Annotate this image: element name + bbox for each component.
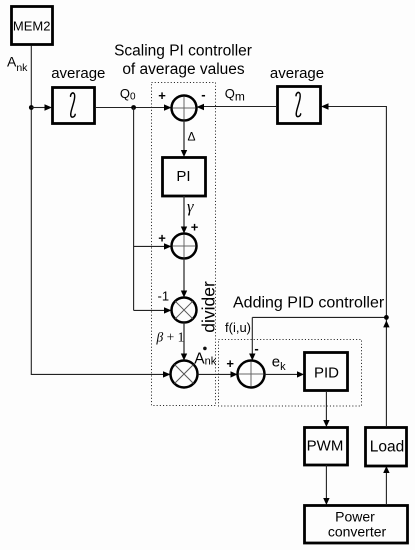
wire feedback horizontal to f branch	[252, 316, 386, 318]
multiplier X1	[172, 298, 197, 323]
svg-text:β + 1: β + 1	[156, 330, 185, 345]
svg-text:average: average	[51, 65, 105, 82]
summing junction S3	[238, 361, 265, 388]
wire Q0 branch into multiplier X1	[134, 307, 172, 313]
svg-text:-: -	[254, 341, 258, 356]
dotted box Scaling PI controller	[152, 83, 216, 406]
wire Q0 branch into summing junction S2	[134, 243, 172, 249]
wire PI to summing junction S2	[181, 196, 187, 234]
label ek	[272, 354, 286, 373]
svg-text:Scaling PI controller: Scaling PI controller	[114, 42, 252, 59]
label A_nk	[7, 54, 28, 75]
dotted box Adding PID controller	[219, 340, 362, 407]
svg-text:-: -	[201, 87, 205, 102]
wire PWM to Power converter	[323, 465, 329, 505]
svg-text:PI: PI	[176, 168, 190, 185]
multiplier X2	[171, 361, 198, 388]
svg-text:Δ: Δ	[188, 130, 196, 144]
label Qm	[225, 86, 245, 104]
svg-text:-1: -1	[158, 289, 170, 304]
wire X2 to summing junction S3	[198, 371, 238, 377]
label minus at S3	[254, 341, 258, 356]
block average right with integral sign	[278, 87, 321, 124]
wire left line into multiplier X2	[31, 371, 171, 377]
wire S1 to PI block	[181, 121, 187, 158]
wire PID to PWM	[323, 391, 329, 427]
svg-text:MEM2: MEM2	[13, 18, 51, 33]
arrow up on right line below junction	[383, 320, 389, 327]
title Adding PID controller	[233, 295, 385, 312]
label gamma	[187, 197, 194, 216]
wire X1 to multiplier X2	[181, 323, 187, 361]
summing junction S1	[172, 96, 197, 121]
summing junction S2	[172, 234, 197, 259]
block PI	[163, 158, 206, 197]
block PID	[305, 353, 348, 391]
wire f branch down into S3	[249, 317, 255, 360]
block Load	[366, 428, 407, 467]
label average (right)	[270, 65, 324, 82]
title Scaling PI controller of average values	[114, 42, 252, 78]
node Q0 dot	[131, 105, 136, 110]
wire S2 to multiplier X1	[181, 259, 187, 298]
label plus top at S2	[191, 220, 199, 235]
svg-text:+: +	[158, 231, 166, 246]
label Q0	[120, 86, 136, 103]
svg-text:+: +	[158, 88, 166, 103]
label average (left)	[51, 65, 105, 82]
junction dot on right line	[384, 315, 389, 320]
wire Q0 vertical drop	[133, 108, 135, 311]
label plus left at S2	[158, 231, 166, 246]
block MEM2	[12, 7, 53, 45]
block average left with integral sign	[53, 88, 95, 124]
label beta + 1	[156, 330, 185, 345]
svg-text:Adding PID controller: Adding PID controller	[233, 295, 385, 312]
wire junction to average (left)	[31, 104, 52, 110]
block PWM	[305, 428, 348, 466]
label divider (rotated)	[199, 281, 219, 333]
label plus at S3	[226, 356, 234, 371]
svg-text:f(i,u): f(i,u)	[225, 320, 251, 335]
svg-text:divider: divider	[199, 281, 219, 333]
label plus at S1	[158, 88, 166, 103]
svg-text:+: +	[226, 356, 234, 371]
svg-text:average: average	[270, 65, 324, 82]
svg-text:of average values: of average values	[122, 61, 245, 78]
wire average right to S1	[197, 104, 278, 110]
label Delta	[188, 130, 196, 144]
label A*nk	[194, 347, 216, 368]
wire from MEM2 down left side	[30, 46, 32, 375]
svg-text:Power: Power	[335, 508, 375, 524]
block Power converter	[305, 506, 408, 544]
wire Load up right side to average right	[321, 103, 386, 427]
svg-text:+: +	[191, 220, 199, 235]
svg-text:Load: Load	[370, 438, 404, 455]
svg-text:γ: γ	[187, 197, 194, 216]
wire S3 to PID	[265, 371, 305, 377]
label f(i,u)	[225, 320, 251, 335]
svg-text:Qm: Qm	[225, 86, 245, 104]
label -1	[158, 289, 170, 304]
junction node on left line	[29, 105, 34, 110]
label minus at S1	[201, 87, 205, 102]
svg-text:PID: PID	[314, 365, 339, 382]
wire average left to summing junction S1	[95, 104, 172, 110]
svg-text:converter: converter	[328, 523, 387, 539]
wire Power converter up to Load	[383, 466, 389, 505]
svg-text:PWM: PWM	[307, 438, 344, 455]
